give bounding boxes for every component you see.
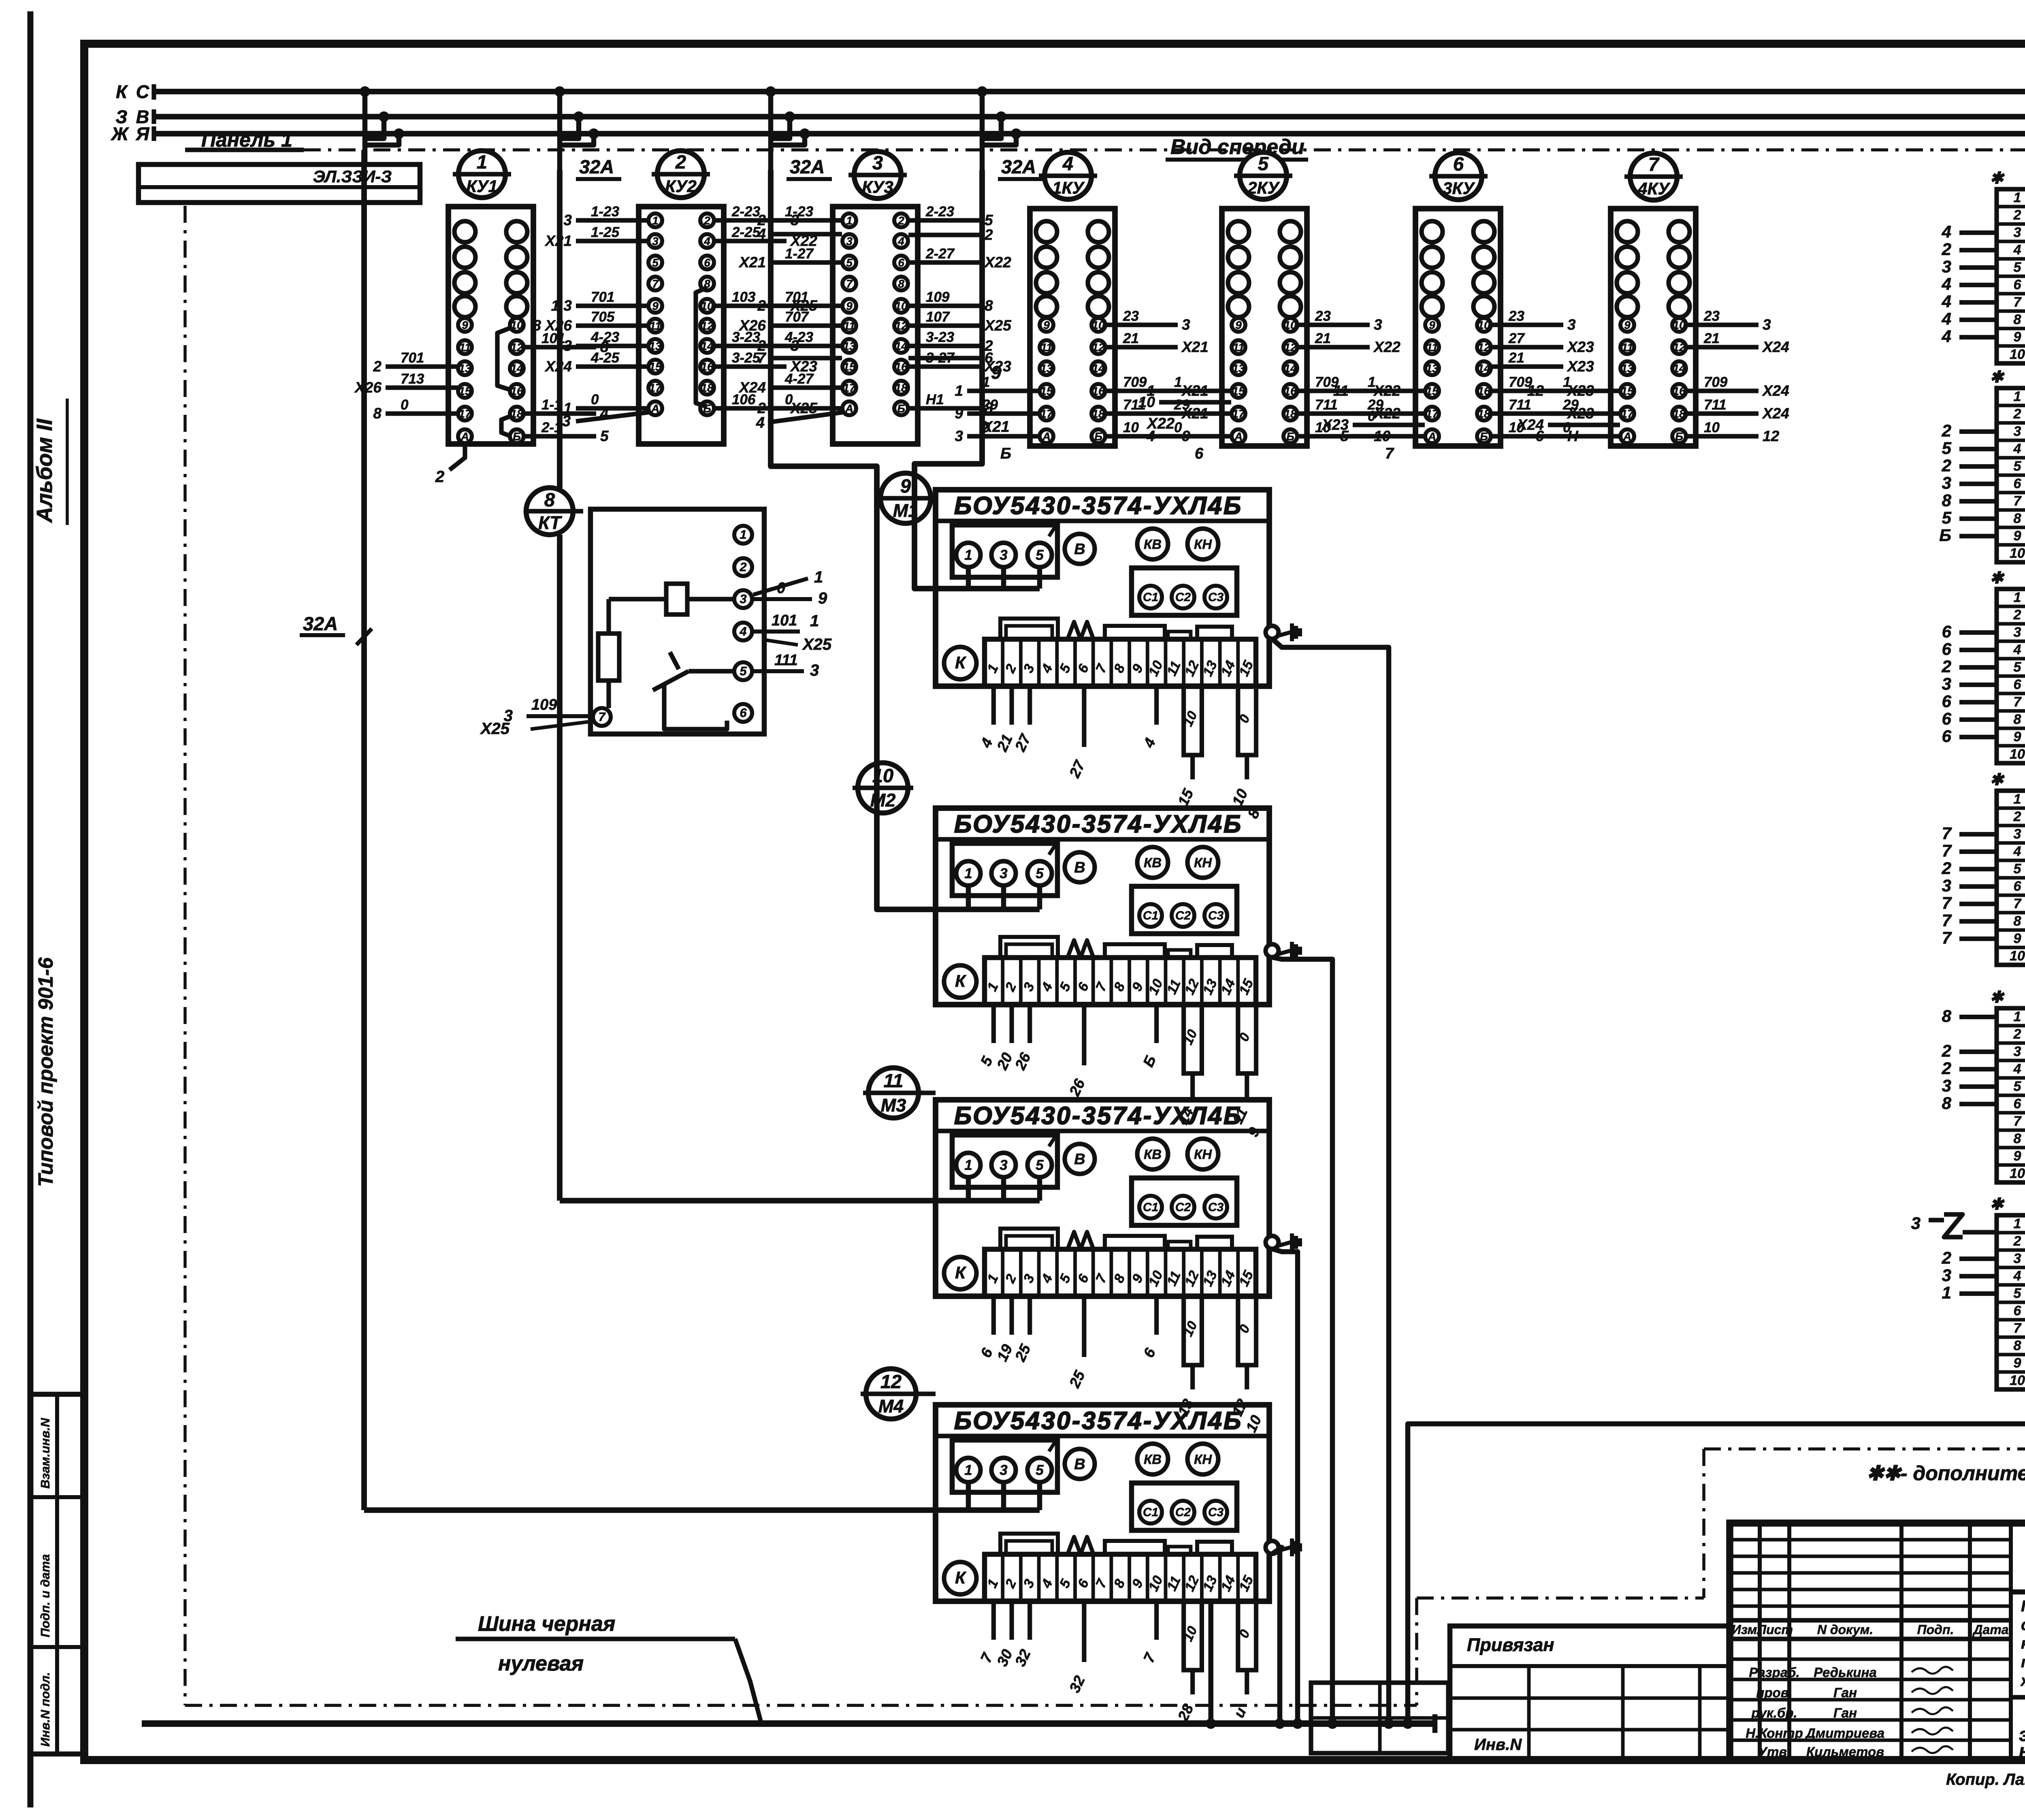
svg-text:1: 1 bbox=[810, 612, 819, 630]
svg-text:2КУ: 2КУ bbox=[1247, 178, 1280, 197]
svg-text:2-25: 2-25 bbox=[731, 224, 761, 240]
svg-text:железобетонных элементов: железобетонных элементов bbox=[2020, 1672, 2025, 1690]
svg-text:Х26: Х26 bbox=[738, 317, 766, 334]
svg-text:3: 3 bbox=[2014, 1044, 2021, 1059]
svg-text:6: 6 bbox=[898, 256, 904, 269]
svg-text:16: 16 bbox=[1092, 385, 1105, 397]
svg-text:21: 21 bbox=[1123, 331, 1139, 346]
svg-text:8 Х26: 8 Х26 bbox=[533, 317, 572, 334]
svg-text:15: 15 bbox=[1232, 385, 1245, 397]
svg-text:12: 12 bbox=[1284, 341, 1297, 354]
svg-text:11: 11 bbox=[884, 1070, 904, 1091]
svg-text:5: 5 bbox=[1942, 439, 1952, 458]
svg-text:2: 2 bbox=[1942, 657, 1951, 676]
svg-text:К: К bbox=[116, 81, 128, 102]
svg-text:С3: С3 bbox=[1208, 1506, 1224, 1519]
svg-text:С3: С3 bbox=[1208, 909, 1224, 922]
svg-text:КВ: КВ bbox=[1144, 1147, 1162, 1162]
svg-text:4КУ: 4КУ bbox=[1637, 179, 1671, 198]
svg-text:17: 17 bbox=[1232, 408, 1245, 420]
svg-text:С2: С2 bbox=[1175, 909, 1191, 922]
svg-text:N докум.: N докум. bbox=[1817, 1622, 1873, 1637]
svg-text:КН: КН bbox=[1194, 1452, 1212, 1467]
svg-text:3: 3 bbox=[1000, 1157, 1008, 1173]
svg-text:1: 1 bbox=[2014, 190, 2021, 205]
svg-text:1: 1 bbox=[1368, 374, 1375, 390]
svg-text:7: 7 bbox=[2014, 493, 2022, 509]
svg-text:10: 10 bbox=[2010, 546, 2025, 561]
svg-text:18: 18 bbox=[1092, 408, 1105, 420]
svg-text:11: 11 bbox=[1426, 341, 1438, 354]
svg-text:0: 0 bbox=[1174, 420, 1182, 435]
svg-text:9: 9 bbox=[1235, 319, 1242, 331]
svg-text:4: 4 bbox=[739, 624, 746, 638]
svg-text:✱: ✱ bbox=[1990, 569, 2005, 587]
svg-text:8: 8 bbox=[544, 489, 555, 510]
svg-text:5: 5 bbox=[1036, 1462, 1044, 1478]
svg-text:2-23: 2-23 bbox=[925, 204, 955, 220]
svg-text:3: 3 bbox=[1000, 1462, 1008, 1478]
svg-text:2: 2 bbox=[757, 400, 766, 416]
svg-text:23: 23 bbox=[1508, 308, 1524, 324]
svg-text:ний.: ний. bbox=[2019, 1740, 2025, 1761]
svg-text:3: 3 bbox=[1000, 547, 1008, 563]
svg-text:2: 2 bbox=[1942, 421, 1951, 440]
svg-text:10: 10 bbox=[1123, 420, 1139, 435]
svg-text:1: 1 bbox=[964, 547, 972, 563]
svg-text:101: 101 bbox=[772, 612, 797, 629]
svg-text:1: 1 bbox=[814, 568, 823, 586]
svg-text:32А: 32А bbox=[1001, 156, 1036, 177]
svg-text:0: 0 bbox=[785, 392, 793, 408]
svg-text:4: 4 bbox=[756, 414, 765, 431]
svg-text:1: 1 bbox=[652, 214, 659, 227]
svg-text:8: 8 bbox=[2014, 511, 2021, 526]
svg-text:3: 3 bbox=[1374, 316, 1382, 333]
svg-text:3: 3 bbox=[563, 337, 572, 354]
svg-text:Х21: Х21 bbox=[1181, 339, 1209, 355]
svg-text:11: 11 bbox=[843, 320, 855, 332]
svg-text:4-25: 4-25 bbox=[590, 350, 620, 366]
svg-text:Х25: Х25 bbox=[984, 317, 1012, 334]
svg-text:БОУ5430-3574-УХЛ4Б: БОУ5430-3574-УХЛ4Б bbox=[954, 1407, 1243, 1434]
svg-text:4: 4 bbox=[2013, 441, 2021, 457]
svg-text:Б: Б bbox=[1286, 430, 1294, 443]
svg-text:4-23: 4-23 bbox=[784, 329, 814, 345]
svg-text:5: 5 bbox=[2014, 1079, 2022, 1094]
svg-text:КН: КН bbox=[1194, 1147, 1212, 1162]
svg-text:8: 8 bbox=[373, 405, 382, 422]
svg-text:109: 109 bbox=[531, 696, 557, 713]
svg-text:9: 9 bbox=[2014, 931, 2021, 946]
svg-text:14: 14 bbox=[1092, 362, 1105, 375]
svg-text:18: 18 bbox=[1477, 408, 1490, 420]
svg-text:8: 8 bbox=[2014, 1131, 2021, 1146]
svg-text:С1: С1 bbox=[1143, 909, 1158, 922]
svg-text:2: 2 bbox=[435, 468, 444, 486]
svg-text:3КУ: 3КУ bbox=[1443, 179, 1475, 198]
svg-text:Б: Б bbox=[1480, 430, 1488, 443]
svg-text:13: 13 bbox=[458, 362, 471, 375]
svg-text:БОУ5430-3574-УХЛ4Б: БОУ5430-3574-УХЛ4Б bbox=[954, 810, 1243, 838]
svg-text:КВ: КВ bbox=[1144, 855, 1162, 870]
svg-text:5: 5 bbox=[652, 256, 659, 269]
svg-text:2: 2 bbox=[2013, 607, 2021, 623]
svg-text:К: К bbox=[955, 1263, 967, 1282]
svg-text:Инв.N подл.: Инв.N подл. bbox=[38, 1672, 52, 1747]
svg-text:1-23: 1-23 bbox=[785, 204, 814, 220]
svg-text:Н.Контр: Н.Контр bbox=[1746, 1726, 1803, 1741]
svg-text:2: 2 bbox=[1942, 456, 1951, 475]
svg-text:7: 7 bbox=[1648, 154, 1660, 175]
svg-text:1: 1 bbox=[2014, 1216, 2021, 1231]
svg-text:3: 3 bbox=[1763, 316, 1771, 333]
svg-text:9: 9 bbox=[846, 300, 853, 312]
svg-text:14: 14 bbox=[510, 362, 523, 375]
svg-text:3-25: 3-25 bbox=[732, 350, 761, 366]
svg-text:Б: Б bbox=[1000, 445, 1011, 462]
svg-text:21: 21 bbox=[1315, 331, 1331, 346]
svg-text:13: 13 bbox=[1040, 362, 1053, 375]
svg-text:М1: М1 bbox=[893, 500, 919, 521]
svg-text:12: 12 bbox=[1763, 428, 1780, 444]
svg-text:А: А bbox=[1042, 430, 1051, 443]
svg-text:711: 711 bbox=[1315, 397, 1338, 413]
svg-text:4: 4 bbox=[703, 235, 710, 248]
svg-text:15: 15 bbox=[1040, 385, 1053, 397]
svg-text:С2: С2 bbox=[1175, 591, 1191, 604]
svg-text:К: К bbox=[955, 653, 967, 672]
svg-text:0: 0 bbox=[591, 392, 599, 408]
svg-text:23: 23 bbox=[1123, 308, 1139, 324]
svg-text:12: 12 bbox=[1092, 341, 1105, 354]
svg-text:2: 2 bbox=[739, 560, 746, 574]
svg-text:6: 6 bbox=[1942, 692, 1952, 711]
svg-text:709: 709 bbox=[1123, 374, 1147, 390]
svg-text:4-23: 4-23 bbox=[590, 329, 620, 345]
svg-text:12: 12 bbox=[701, 320, 714, 332]
svg-text:5: 5 bbox=[1036, 866, 1044, 881]
svg-text:7: 7 bbox=[1942, 911, 1952, 930]
svg-text:9: 9 bbox=[2014, 528, 2021, 544]
svg-text:Х22: Х22 bbox=[1373, 339, 1400, 355]
svg-text:18: 18 bbox=[701, 382, 714, 394]
svg-text:5: 5 bbox=[2014, 1286, 2022, 1301]
svg-text:Подп.: Подп. bbox=[1917, 1622, 1954, 1637]
svg-text:13: 13 bbox=[1621, 362, 1634, 375]
svg-text:13: 13 bbox=[843, 340, 856, 352]
svg-text:3: 3 bbox=[563, 212, 572, 228]
svg-text:Х23: Х23 bbox=[1567, 358, 1594, 375]
svg-text:10: 10 bbox=[2010, 1166, 2025, 1181]
svg-text:8: 8 bbox=[2014, 913, 2021, 929]
svg-text:А: А bbox=[845, 402, 853, 415]
svg-text:КУ2: КУ2 bbox=[665, 177, 697, 196]
svg-text:2: 2 bbox=[373, 358, 382, 375]
svg-text:9: 9 bbox=[818, 589, 827, 607]
svg-text:Х24: Х24 bbox=[544, 358, 572, 375]
svg-text:Х21: Х21 bbox=[544, 233, 572, 249]
svg-text:2: 2 bbox=[757, 297, 766, 314]
svg-text:К: К bbox=[955, 971, 967, 990]
svg-text:С1: С1 bbox=[1143, 1506, 1158, 1519]
svg-text:18: 18 bbox=[1284, 408, 1297, 420]
svg-text:1: 1 bbox=[477, 151, 487, 173]
svg-text:А: А bbox=[1623, 430, 1631, 443]
svg-text:7: 7 bbox=[1385, 445, 1394, 462]
svg-text:Х26: Х26 bbox=[354, 379, 382, 396]
svg-text:17: 17 bbox=[843, 382, 856, 394]
svg-text:21: 21 bbox=[1508, 350, 1524, 366]
svg-text:23: 23 bbox=[1315, 308, 1331, 324]
svg-text:6: 6 bbox=[1942, 727, 1952, 746]
svg-text:6: 6 bbox=[1195, 445, 1204, 462]
svg-text:18: 18 bbox=[510, 408, 523, 420]
svg-text:3: 3 bbox=[1182, 316, 1190, 333]
svg-text:✱: ✱ bbox=[1990, 988, 2005, 1006]
svg-text:3: 3 bbox=[562, 413, 571, 430]
svg-text:9: 9 bbox=[2014, 729, 2021, 745]
svg-text:6: 6 bbox=[2014, 1096, 2022, 1112]
svg-text:Лист: Лист bbox=[1756, 1622, 1793, 1637]
svg-text:12: 12 bbox=[510, 341, 523, 354]
svg-text:1КУ: 1КУ bbox=[1052, 178, 1085, 197]
svg-text:705: 705 bbox=[591, 309, 615, 325]
svg-text:17: 17 bbox=[1621, 408, 1634, 420]
svg-text:Инв.N: Инв.N bbox=[1474, 1736, 1522, 1754]
svg-text:5: 5 bbox=[600, 428, 609, 444]
svg-text:10: 10 bbox=[1092, 319, 1105, 331]
svg-text:10: 10 bbox=[1673, 319, 1686, 331]
svg-text:3: 3 bbox=[2014, 826, 2021, 842]
svg-text:17: 17 bbox=[458, 408, 472, 420]
svg-text:КВ: КВ bbox=[1144, 1452, 1162, 1467]
svg-text:с вентиляторами ЗВГ25: с вентиляторами ЗВГ25 bbox=[2021, 1616, 2025, 1634]
svg-text:Х21: Х21 bbox=[981, 418, 1010, 435]
svg-text:Ж: Ж bbox=[111, 124, 129, 144]
svg-text:6: 6 bbox=[2014, 677, 2022, 692]
svg-text:12: 12 bbox=[1477, 341, 1490, 354]
svg-text:КН: КН bbox=[1194, 537, 1212, 552]
svg-text:1: 1 bbox=[1174, 374, 1182, 390]
svg-text:2-1: 2-1 bbox=[541, 420, 562, 435]
svg-text:17: 17 bbox=[1426, 408, 1439, 420]
svg-text:3: 3 bbox=[2014, 1251, 2021, 1266]
svg-text:2: 2 bbox=[2013, 406, 2021, 422]
svg-text:капельная с секциями: капельная с секциями bbox=[2021, 1635, 2025, 1652]
svg-text:10: 10 bbox=[2010, 347, 2025, 362]
svg-text:В: В bbox=[1074, 859, 1085, 876]
svg-text:Х24: Х24 bbox=[1762, 339, 1789, 355]
svg-text:1: 1 bbox=[2014, 792, 2021, 807]
svg-text:Взам.инв.N: Взам.инв.N bbox=[38, 1418, 52, 1489]
svg-text:С3: С3 bbox=[1208, 591, 1224, 604]
svg-text:18: 18 bbox=[895, 382, 908, 394]
svg-text:6: 6 bbox=[2014, 476, 2022, 491]
svg-text:9: 9 bbox=[2014, 329, 2021, 345]
svg-text:8: 8 bbox=[1942, 491, 1952, 510]
svg-text:Б: Б bbox=[897, 402, 905, 415]
svg-text:16: 16 bbox=[1477, 385, 1490, 397]
svg-text:Разраб.: Разраб. bbox=[1749, 1665, 1799, 1680]
svg-text:13: 13 bbox=[1232, 362, 1245, 375]
svg-text:11: 11 bbox=[1040, 341, 1052, 354]
svg-text:2: 2 bbox=[703, 214, 710, 227]
svg-text:7: 7 bbox=[2014, 294, 2022, 310]
svg-text:Х25: Х25 bbox=[480, 720, 510, 738]
svg-text:Х21: Х21 bbox=[738, 254, 766, 271]
svg-text:9: 9 bbox=[2014, 1148, 2021, 1164]
svg-text:4: 4 bbox=[2013, 844, 2021, 859]
svg-text:А: А bbox=[460, 430, 469, 443]
svg-text:3: 3 bbox=[1942, 876, 1951, 895]
svg-text:К: К bbox=[955, 1568, 967, 1587]
svg-text:Подп. и дата: Подп. и дата bbox=[38, 1554, 52, 1637]
svg-text:1: 1 bbox=[982, 374, 990, 390]
svg-text:10: 10 bbox=[2010, 747, 2025, 762]
svg-text:5: 5 bbox=[985, 212, 993, 228]
svg-text:3-27: 3-27 bbox=[926, 350, 955, 366]
svg-text:7: 7 bbox=[2014, 1114, 2022, 1129]
svg-text:С1: С1 bbox=[1143, 1201, 1158, 1214]
svg-text:10: 10 bbox=[2010, 948, 2025, 964]
svg-text:Утв.: Утв. bbox=[1758, 1744, 1791, 1759]
svg-text:711: 711 bbox=[1509, 397, 1531, 413]
svg-text:Х24: Х24 bbox=[738, 379, 766, 396]
svg-text:8: 8 bbox=[1942, 1007, 1952, 1026]
svg-text:8: 8 bbox=[1942, 1094, 1952, 1113]
svg-text:14: 14 bbox=[701, 340, 714, 352]
svg-text:701: 701 bbox=[785, 289, 808, 305]
svg-text:0: 0 bbox=[1563, 420, 1571, 435]
svg-text:16: 16 bbox=[510, 385, 523, 397]
svg-text:4: 4 bbox=[757, 226, 766, 242]
svg-text:15: 15 bbox=[458, 385, 471, 397]
svg-text:2: 2 bbox=[1942, 1041, 1951, 1060]
svg-text:10: 10 bbox=[1477, 319, 1490, 331]
svg-text:32А: 32А bbox=[579, 156, 614, 177]
svg-text:3: 3 bbox=[1942, 1076, 1951, 1095]
svg-text:10: 10 bbox=[872, 765, 893, 786]
svg-text:6: 6 bbox=[1453, 153, 1464, 175]
svg-text:10: 10 bbox=[895, 300, 908, 312]
svg-text:Ган: Ган bbox=[1833, 1705, 1857, 1720]
svg-text:7: 7 bbox=[1942, 928, 1952, 947]
svg-text:3: 3 bbox=[810, 661, 819, 679]
svg-text:5: 5 bbox=[740, 664, 747, 678]
svg-text:3: 3 bbox=[2014, 625, 2021, 640]
svg-text:1-23: 1-23 bbox=[591, 204, 620, 220]
svg-text:ЭЛ.ЗЗИ-З: ЭЛ.ЗЗИ-З bbox=[313, 167, 392, 186]
svg-text:А: А bbox=[1234, 430, 1243, 443]
svg-text:0: 0 bbox=[401, 397, 409, 413]
svg-text:С2: С2 bbox=[1175, 1506, 1191, 1519]
svg-text:Х24: Х24 bbox=[1762, 382, 1789, 399]
svg-text:КУ1: КУ1 bbox=[466, 177, 498, 196]
svg-text:Шина черная: Шина черная bbox=[478, 1612, 615, 1636]
svg-text:С2: С2 bbox=[1175, 1201, 1191, 1214]
svg-text:С1: С1 bbox=[1143, 591, 1158, 604]
svg-text:Б: Б bbox=[1094, 430, 1102, 443]
svg-text:✱: ✱ bbox=[1990, 368, 2005, 386]
svg-text:6: 6 bbox=[1535, 428, 1544, 444]
svg-text:14: 14 bbox=[895, 340, 908, 352]
svg-text:8: 8 bbox=[2014, 712, 2021, 727]
svg-text:3: 3 bbox=[2014, 424, 2021, 439]
svg-text:17: 17 bbox=[1040, 408, 1053, 420]
svg-text:14: 14 bbox=[1284, 362, 1297, 375]
svg-text:32А: 32А bbox=[790, 156, 825, 177]
svg-text:713: 713 bbox=[401, 371, 424, 387]
svg-text:2: 2 bbox=[2013, 207, 2021, 223]
svg-text:6: 6 bbox=[1942, 709, 1952, 728]
svg-text:10: 10 bbox=[701, 300, 714, 312]
svg-text:Х23: Х23 bbox=[1567, 339, 1594, 355]
svg-text:2: 2 bbox=[2013, 1026, 2021, 1042]
svg-text:3: 3 bbox=[1000, 866, 1008, 881]
svg-text:6: 6 bbox=[740, 706, 747, 720]
svg-text:6: 6 bbox=[1942, 622, 1952, 641]
svg-text:16: 16 bbox=[895, 361, 908, 373]
svg-text:Дмитриева: Дмитриева bbox=[1805, 1726, 1884, 1741]
svg-text:1: 1 bbox=[964, 866, 972, 881]
svg-text:С: С bbox=[136, 81, 150, 102]
svg-text:4: 4 bbox=[2013, 1061, 2021, 1077]
svg-text:3: 3 bbox=[846, 235, 853, 248]
svg-text:Копир. Лаврушина: Копир. Лаврушина bbox=[1946, 1771, 2025, 1788]
svg-text:7: 7 bbox=[652, 277, 659, 290]
svg-text:11: 11 bbox=[1232, 341, 1244, 354]
svg-text:707: 707 bbox=[785, 309, 809, 325]
svg-text:6: 6 bbox=[704, 256, 710, 269]
svg-text:13: 13 bbox=[649, 340, 662, 352]
svg-text:14: 14 bbox=[1477, 362, 1490, 375]
svg-text:5: 5 bbox=[1258, 153, 1269, 174]
svg-text:1: 1 bbox=[846, 214, 853, 227]
svg-text:12: 12 bbox=[1527, 382, 1544, 399]
svg-text:2: 2 bbox=[2013, 809, 2021, 824]
svg-text:А: А bbox=[651, 402, 659, 415]
svg-text:7: 7 bbox=[1942, 841, 1952, 860]
svg-text:Панель 1: Панель 1 bbox=[201, 128, 292, 151]
svg-text:В: В bbox=[1074, 1151, 1085, 1168]
svg-text:✱✱- дополнительные рейки с: ✱✱- дополнительные рейки с зажимами bbox=[1867, 1462, 2025, 1485]
svg-text:2-27: 2-27 bbox=[925, 246, 955, 262]
svg-text:КН: КН bbox=[1194, 855, 1212, 870]
svg-text:7: 7 bbox=[1942, 824, 1952, 843]
svg-text:1: 1 bbox=[964, 1462, 972, 1478]
svg-text:6: 6 bbox=[1942, 640, 1952, 659]
svg-text:3-23: 3-23 bbox=[926, 329, 955, 345]
svg-text:709: 709 bbox=[1704, 374, 1728, 390]
svg-text:Б: Б bbox=[1939, 526, 1951, 545]
svg-text:КВ: КВ bbox=[1144, 537, 1162, 552]
svg-text:Ган: Ган bbox=[1833, 1685, 1857, 1700]
svg-text:3: 3 bbox=[1911, 1214, 1921, 1233]
svg-text:9: 9 bbox=[652, 300, 659, 312]
svg-text:29: 29 bbox=[982, 397, 998, 413]
svg-text:Н1: Н1 bbox=[926, 392, 944, 408]
svg-text:3: 3 bbox=[1942, 674, 1951, 693]
svg-text:2: 2 bbox=[1942, 240, 1951, 259]
svg-text:2: 2 bbox=[984, 226, 993, 243]
svg-text:1: 1 bbox=[2014, 1009, 2021, 1024]
svg-text:16: 16 bbox=[1673, 385, 1686, 397]
svg-text:Привязан: Привязан bbox=[1467, 1634, 1554, 1655]
svg-text:2: 2 bbox=[675, 151, 686, 173]
svg-text:1: 1 bbox=[1942, 1283, 1951, 1302]
svg-text:4: 4 bbox=[1942, 275, 1951, 294]
